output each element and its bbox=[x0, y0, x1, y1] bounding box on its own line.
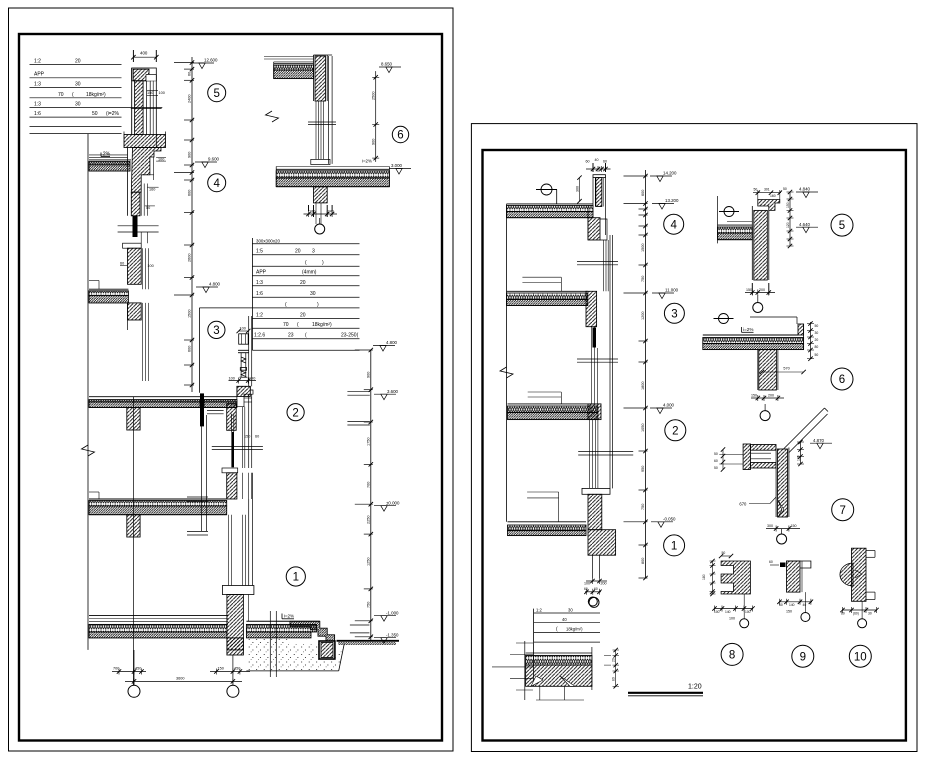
railing post detail 3 bbox=[229, 327, 257, 384]
parapet wall detail 5 bbox=[132, 68, 165, 148]
svg-text:450: 450 bbox=[135, 667, 141, 671]
grid line A lower bbox=[132, 397, 134, 686]
detail circle 6 bbox=[392, 126, 408, 142]
svg-text:20: 20 bbox=[300, 280, 306, 286]
svg-text:30: 30 bbox=[75, 82, 81, 88]
svg-text:1:6: 1:6 bbox=[34, 111, 41, 117]
svg-text:3600: 3600 bbox=[176, 676, 184, 680]
detail circle r1 bbox=[664, 535, 685, 556]
earth fill bbox=[246, 636, 344, 671]
svg-text:50: 50 bbox=[714, 452, 718, 456]
svg-text:180: 180 bbox=[702, 574, 706, 580]
svg-text:APP: APP bbox=[256, 270, 267, 276]
detail 5R dims bbox=[753, 187, 818, 249]
svg-text:4.870: 4.870 bbox=[813, 438, 825, 443]
svg-text:160: 160 bbox=[149, 188, 155, 192]
svg-text:3: 3 bbox=[213, 325, 219, 337]
svg-text:750: 750 bbox=[641, 276, 645, 282]
svg-text:100: 100 bbox=[584, 582, 590, 586]
svg-text:180: 180 bbox=[309, 210, 315, 214]
right ground floor bbox=[508, 488, 616, 585]
svg-text:2600: 2600 bbox=[188, 254, 192, 262]
interior sill lines b bbox=[528, 392, 562, 404]
svg-text:13.200: 13.200 bbox=[665, 198, 679, 203]
right parapet bbox=[575, 158, 610, 235]
svg-text:1: 1 bbox=[671, 541, 677, 553]
detail 6R bubble bbox=[760, 404, 770, 421]
detail6 lower slab and beam bbox=[276, 167, 389, 225]
svg-text:150: 150 bbox=[751, 394, 757, 398]
detail circle r2 bbox=[665, 420, 686, 441]
svg-text:60: 60 bbox=[584, 587, 588, 591]
svg-text:50: 50 bbox=[754, 188, 758, 192]
svg-text:50: 50 bbox=[92, 111, 98, 117]
scale text bbox=[628, 684, 703, 696]
detail6 grid bubble bbox=[315, 218, 325, 234]
railing curb bbox=[237, 386, 250, 396]
svg-text:18kg/m²): 18kg/m²) bbox=[312, 322, 332, 328]
svg-text:-1.000: -1.000 bbox=[386, 610, 399, 615]
svg-text:30: 30 bbox=[568, 608, 573, 613]
svg-text:6: 6 bbox=[397, 130, 403, 142]
interior sill lines a bbox=[522, 277, 561, 291]
svg-text:100: 100 bbox=[158, 157, 164, 161]
cut symbol roof bbox=[536, 184, 557, 204]
svg-text:2: 2 bbox=[292, 407, 298, 419]
svg-text:60: 60 bbox=[586, 160, 590, 164]
bottom detail bubble bbox=[584, 587, 602, 606]
svg-text:570: 570 bbox=[783, 367, 789, 371]
detail circle 5 bbox=[208, 84, 226, 102]
right dim chain bbox=[347, 340, 400, 643]
detail circle 1 bbox=[286, 567, 305, 586]
svg-text:150: 150 bbox=[786, 202, 790, 208]
svg-text:3: 3 bbox=[671, 308, 677, 320]
left sheet outer border bbox=[9, 8, 454, 751]
svg-text:4.840: 4.840 bbox=[799, 187, 811, 192]
wall into ground bbox=[227, 638, 244, 655]
svg-text:20: 20 bbox=[815, 338, 819, 342]
svg-text:9: 9 bbox=[800, 651, 806, 663]
svg-text:100: 100 bbox=[147, 264, 153, 268]
svg-text:60: 60 bbox=[769, 560, 773, 564]
svg-text:100: 100 bbox=[159, 91, 165, 95]
coping band detail 4 bbox=[124, 132, 166, 148]
svg-text:4.640: 4.640 bbox=[799, 222, 811, 227]
svg-text:300: 300 bbox=[575, 186, 579, 192]
svg-text:1:2: 1:2 bbox=[34, 58, 41, 64]
svg-text:100: 100 bbox=[729, 617, 735, 621]
svg-text:3.000: 3.000 bbox=[391, 163, 403, 168]
detail 8 bubble bbox=[740, 594, 749, 628]
right window strip3 bbox=[578, 420, 633, 489]
svg-text:i=2%: i=2% bbox=[743, 327, 753, 332]
ground storey wall window bbox=[222, 473, 254, 650]
svg-text:5: 5 bbox=[839, 220, 845, 232]
svg-text:1:2: 1:2 bbox=[536, 608, 542, 613]
svg-text:5: 5 bbox=[213, 88, 219, 100]
svg-text:140: 140 bbox=[789, 603, 795, 607]
svg-text:2: 2 bbox=[672, 425, 678, 437]
detail 6R dims bbox=[751, 321, 818, 401]
svg-text:±0.000: ±0.000 bbox=[386, 500, 400, 505]
svg-text:2250: 2250 bbox=[367, 516, 371, 524]
balcony door head bbox=[237, 386, 259, 438]
bottom spec table bbox=[534, 608, 600, 687]
profile detail 10 bbox=[840, 548, 879, 615]
svg-text:150: 150 bbox=[746, 288, 752, 292]
grid bubble A bbox=[128, 685, 140, 697]
svg-text:30: 30 bbox=[868, 611, 872, 615]
svg-text:160: 160 bbox=[770, 194, 776, 198]
svg-text:12.600: 12.600 bbox=[204, 58, 218, 63]
expansion joint bbox=[270, 611, 276, 677]
svg-text:60: 60 bbox=[714, 459, 718, 463]
floor slab level3 bbox=[89, 281, 141, 321]
floor slab level2 bbox=[89, 492, 227, 537]
svg-text:190: 190 bbox=[249, 376, 255, 380]
detail 9 bubble bbox=[801, 592, 810, 621]
svg-text:4.000: 4.000 bbox=[663, 403, 675, 408]
detail6 window bbox=[308, 56, 336, 165]
dim 400 parapet bbox=[131, 50, 158, 62]
svg-text:600: 600 bbox=[188, 346, 192, 352]
svg-text:70: 70 bbox=[283, 322, 289, 328]
svg-text:80: 80 bbox=[612, 677, 616, 681]
svg-text:1:2: 1:2 bbox=[256, 312, 263, 318]
svg-text:400: 400 bbox=[140, 51, 148, 56]
svg-text:2500: 2500 bbox=[372, 92, 376, 100]
svg-text:1:2.6: 1:2.6 bbox=[254, 333, 265, 339]
bottom detail leaders bbox=[492, 641, 584, 700]
svg-text:150: 150 bbox=[786, 610, 792, 614]
svg-text:100: 100 bbox=[745, 610, 751, 614]
detail 4 corbel wall bbox=[128, 148, 167, 216]
svg-text:40: 40 bbox=[595, 158, 599, 162]
svg-text:950: 950 bbox=[641, 466, 645, 472]
floor slab level3 interior bbox=[89, 397, 200, 430]
svg-text:10: 10 bbox=[854, 651, 867, 663]
detail circle 3 bbox=[208, 321, 225, 338]
table leader line bbox=[199, 308, 252, 393]
svg-text:900: 900 bbox=[367, 372, 371, 378]
svg-text:180: 180 bbox=[796, 455, 800, 461]
svg-text:1250: 1250 bbox=[367, 558, 371, 566]
detail 7 dims bbox=[796, 438, 832, 466]
svg-text:301: 301 bbox=[764, 188, 770, 192]
svg-text:1: 1 bbox=[293, 572, 299, 584]
wall window below level3 bbox=[128, 303, 252, 386]
step foundation block bbox=[319, 641, 335, 659]
svg-text:1:20: 1:20 bbox=[688, 684, 702, 691]
mix ratio table bbox=[252, 238, 359, 350]
materials spec table bbox=[30, 58, 163, 133]
svg-text:20: 20 bbox=[300, 312, 306, 318]
svg-text:APP: APP bbox=[34, 72, 45, 78]
detail circle r3 bbox=[664, 303, 684, 323]
detail circle r4 bbox=[664, 214, 684, 234]
svg-text:1500: 1500 bbox=[188, 310, 192, 318]
detail6 dims bbox=[266, 62, 412, 217]
svg-text:900: 900 bbox=[188, 152, 192, 158]
detail circle 6R bbox=[831, 368, 853, 390]
bottom dims bbox=[112, 650, 250, 685]
detail 6R structure bbox=[703, 314, 804, 391]
svg-text:60: 60 bbox=[120, 261, 124, 265]
svg-text:200: 200 bbox=[759, 288, 765, 292]
balcony door section bbox=[187, 415, 208, 535]
detail circle 9 bbox=[792, 645, 814, 667]
svg-text:23: 23 bbox=[288, 333, 294, 339]
roof slab detail 4 bbox=[89, 152, 131, 172]
svg-text:750: 750 bbox=[641, 504, 645, 510]
svg-text:14.200: 14.200 bbox=[663, 171, 677, 176]
svg-text:50: 50 bbox=[815, 353, 819, 357]
svg-text:40: 40 bbox=[562, 617, 567, 622]
svg-text:600: 600 bbox=[641, 190, 645, 196]
svg-text:30: 30 bbox=[310, 291, 316, 297]
gutter profile bbox=[714, 444, 776, 472]
svg-text:140: 140 bbox=[725, 610, 731, 614]
detail6 wall bbox=[314, 55, 333, 101]
svg-text:800: 800 bbox=[641, 558, 645, 564]
ground floor slab bbox=[89, 615, 228, 638]
bottom detail right dims bbox=[604, 648, 619, 689]
svg-text:20: 20 bbox=[295, 249, 301, 255]
svg-text:670: 670 bbox=[739, 502, 747, 507]
detail6 upper slab bbox=[264, 57, 314, 79]
svg-text:150: 150 bbox=[147, 91, 153, 95]
svg-text:-0.050: -0.050 bbox=[663, 517, 676, 522]
svg-text:1:3: 1:3 bbox=[34, 101, 41, 107]
svg-text:100: 100 bbox=[229, 376, 235, 380]
svg-text:30: 30 bbox=[815, 331, 819, 335]
svg-text:(i=2%: (i=2% bbox=[106, 111, 119, 117]
svg-text:900: 900 bbox=[372, 139, 376, 145]
interior wall line bbox=[82, 134, 95, 650]
svg-text:300: 300 bbox=[767, 524, 773, 528]
svg-text:60: 60 bbox=[779, 603, 783, 607]
svg-text:700: 700 bbox=[367, 482, 371, 488]
right interior line bbox=[500, 215, 513, 521]
svg-text:4: 4 bbox=[213, 178, 220, 190]
svg-text:2400: 2400 bbox=[188, 95, 192, 103]
svg-text:150: 150 bbox=[791, 524, 797, 528]
svg-text:200: 200 bbox=[768, 394, 774, 398]
svg-text:1500: 1500 bbox=[641, 244, 645, 252]
svg-text:11.000: 11.000 bbox=[665, 288, 679, 293]
svg-text:60: 60 bbox=[841, 611, 845, 615]
svg-text:1750: 1750 bbox=[367, 438, 371, 446]
svg-text:450: 450 bbox=[234, 667, 240, 671]
svg-text:30: 30 bbox=[75, 101, 81, 107]
left sheet inner border bbox=[19, 34, 442, 741]
svg-text:200: 200 bbox=[601, 582, 607, 586]
detail circle 7 bbox=[832, 499, 854, 521]
svg-text:40: 40 bbox=[803, 603, 807, 607]
detail 7 bubble bbox=[777, 529, 787, 544]
svg-text:1050: 1050 bbox=[641, 424, 645, 432]
svg-text:1:5: 1:5 bbox=[256, 249, 263, 255]
ground line right of steps bbox=[337, 641, 400, 645]
detail circle 5R bbox=[831, 214, 853, 236]
svg-text:100: 100 bbox=[714, 610, 720, 614]
detail 5R bubble bbox=[753, 295, 763, 313]
svg-text:4: 4 bbox=[670, 219, 677, 231]
svg-text:3: 3 bbox=[312, 249, 315, 255]
svg-text:80: 80 bbox=[815, 345, 819, 349]
interior sill lines c bbox=[527, 492, 559, 522]
svg-text:300x300x20: 300x300x20 bbox=[256, 239, 280, 244]
detail 10 bubble bbox=[858, 601, 867, 628]
left dim chain bbox=[174, 57, 221, 392]
svg-text:60: 60 bbox=[188, 72, 192, 76]
svg-text:120: 120 bbox=[786, 222, 790, 228]
svg-text:18kg/m²): 18kg/m²) bbox=[86, 92, 106, 98]
terrace slab and steps bbox=[246, 614, 334, 642]
svg-text:60: 60 bbox=[603, 160, 607, 164]
svg-text:8.650: 8.650 bbox=[381, 62, 393, 67]
right window strip2 bbox=[577, 327, 618, 404]
detail 5R structure bbox=[718, 196, 780, 296]
detail circle 4 bbox=[208, 174, 226, 192]
svg-text:240: 240 bbox=[328, 210, 334, 214]
svg-text:-1.350: -1.350 bbox=[386, 632, 399, 637]
svg-text:60: 60 bbox=[594, 587, 598, 591]
right sheet outer border bbox=[471, 124, 917, 752]
grid bubble B bbox=[227, 685, 239, 697]
svg-text:18kg/m²): 18kg/m²) bbox=[566, 627, 583, 632]
right grid bubble bbox=[589, 597, 599, 607]
right roof slab bbox=[507, 204, 594, 218]
svg-text:750: 750 bbox=[367, 602, 371, 608]
svg-text:50: 50 bbox=[815, 324, 819, 328]
detail circle 10 bbox=[849, 645, 871, 667]
detail circle 2 bbox=[287, 404, 304, 421]
right wall below roof bbox=[588, 207, 607, 241]
svg-text:50: 50 bbox=[783, 187, 787, 191]
svg-text:4.800: 4.800 bbox=[209, 282, 221, 287]
svg-text:150: 150 bbox=[218, 667, 224, 671]
balcony slab level3 bbox=[200, 393, 237, 430]
svg-text:1800: 1800 bbox=[641, 382, 645, 390]
svg-text:i=2%: i=2% bbox=[284, 614, 294, 619]
mid wall window band bbox=[118, 216, 159, 289]
window below level3 bbox=[212, 394, 263, 499]
svg-text:4.800: 4.800 bbox=[386, 340, 398, 345]
svg-text:20: 20 bbox=[612, 658, 616, 662]
svg-text:9.600: 9.600 bbox=[208, 157, 220, 162]
svg-text:8: 8 bbox=[729, 650, 735, 662]
svg-text:1:3: 1:3 bbox=[256, 280, 263, 286]
svg-text:(60): (60) bbox=[853, 611, 859, 615]
svg-text:1:6: 1:6 bbox=[256, 291, 263, 297]
svg-text:70: 70 bbox=[58, 92, 64, 98]
svg-text:60: 60 bbox=[255, 435, 259, 439]
right floor slab b bbox=[508, 404, 602, 420]
svg-text:i=2%: i=2% bbox=[362, 159, 372, 164]
svg-text:600: 600 bbox=[188, 190, 192, 196]
svg-text:20: 20 bbox=[75, 58, 81, 64]
profile detail 8 bbox=[702, 551, 755, 621]
svg-text:1200: 1200 bbox=[641, 312, 645, 320]
svg-text:50: 50 bbox=[714, 466, 718, 470]
svg-text:3.600: 3.600 bbox=[387, 389, 399, 394]
svg-text:(4mm): (4mm) bbox=[302, 270, 317, 276]
svg-text:100: 100 bbox=[240, 327, 246, 331]
right sheet inner border bbox=[483, 150, 906, 741]
right sheet dim chain bbox=[624, 170, 679, 580]
roof slope lines bbox=[783, 408, 828, 453]
svg-text:50: 50 bbox=[146, 206, 150, 210]
detail 7 wall bbox=[739, 448, 800, 532]
svg-text:23-250(: 23-250( bbox=[341, 333, 359, 339]
svg-text:7: 7 bbox=[839, 505, 845, 517]
right window strip1 bbox=[577, 235, 618, 488]
profile detail 9 bbox=[769, 560, 813, 614]
svg-text:50: 50 bbox=[722, 551, 726, 555]
detail circle 8 bbox=[721, 643, 743, 665]
svg-text:700: 700 bbox=[113, 667, 119, 671]
svg-text:1:3: 1:3 bbox=[34, 82, 41, 88]
bottom slab detail bbox=[526, 647, 592, 690]
svg-text:6: 6 bbox=[839, 374, 845, 386]
right floor slab a bbox=[507, 291, 597, 326]
